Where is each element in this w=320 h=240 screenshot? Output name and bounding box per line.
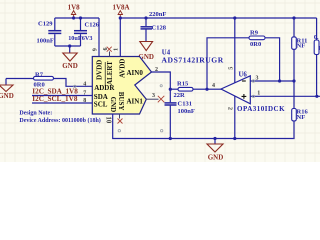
wire op-amp pin 1 (250, 95, 320, 97)
junction gnd rail (68, 44, 71, 47)
svg-text:ADS7142IRUGR: ADS7142IRUGR (162, 55, 224, 64)
resistor R16 (292, 81, 309, 139)
node marker on ADDR wire (74, 85, 76, 87)
junction R9 to pin3 net (278, 79, 281, 82)
junction gnd stub (213, 137, 216, 140)
svg-text:SCL: SCL (94, 100, 108, 108)
op-amp IC U4 ADS7142IRUGR body (92, 49, 223, 114)
node marker small circle 2 (161, 130, 163, 132)
svg-text:AIN0: AIN0 (127, 69, 144, 77)
junction R11 rail (292, 16, 295, 19)
svg-text:1V8A: 1V8A (112, 4, 129, 12)
svg-text:GND: GND (0, 92, 14, 100)
wire I2C_SCL_1V8 with net label (32, 95, 92, 103)
svg-text:0.: 0. (314, 34, 319, 41)
junction 1V8 (72, 16, 75, 19)
wire pin10 GND to bottom rail (113, 114, 294, 139)
capacitor C126 (68, 18, 99, 46)
svg-text:3: 3 (152, 93, 155, 99)
svg-text:AVDD: AVDD (119, 59, 127, 78)
svg-text:U6: U6 (239, 71, 248, 78)
svg-text:GND: GND (62, 62, 78, 70)
node marker small circle 1 (118, 130, 120, 132)
junction output node pin4 (205, 88, 208, 91)
pin 5 BUSY stub with no-connect X (118, 114, 123, 124)
wire I2C_SDA_1V8 with net label (32, 88, 92, 96)
svg-text:220nF: 220nF (149, 11, 166, 18)
ground C128 (138, 42, 154, 62)
svg-text:Design Note:: Design Note: (19, 110, 52, 116)
wire output node to op-amp (207, 88, 222, 90)
svg-text:4: 4 (212, 83, 215, 89)
svg-text:C128: C128 (152, 25, 167, 32)
svg-text:5: 5 (227, 67, 234, 70)
resistor R9 (207, 30, 280, 90)
svg-text:BUSY: BUSY (117, 92, 125, 111)
junction pin2 rail (233, 137, 236, 140)
svg-text:GND: GND (208, 154, 224, 162)
ground bottom rail (207, 139, 223, 162)
svg-text:10: 10 (104, 117, 111, 124)
svg-text:OPA310IDCK: OPA310IDCK (237, 105, 285, 113)
svg-text:C129: C129 (38, 21, 53, 28)
svg-text:NF: NF (297, 43, 306, 50)
ground caps (62, 46, 78, 70)
wire 1V8A rail top (120, 17, 316, 19)
wire DVDD feed (98, 18, 100, 57)
junction C128 (144, 16, 147, 19)
junction pin3 R11 node (292, 79, 295, 82)
junction 1V8A (119, 16, 122, 19)
resistor far right (clipped) (314, 18, 320, 96)
pin 6 ALERT label (105, 61, 114, 85)
svg-text:R15: R15 (177, 81, 189, 88)
ground R7 left (0, 79, 14, 101)
svg-text:C126: C126 (85, 22, 100, 29)
pin 6 ALERT stub with no-connect X (107, 47, 112, 57)
svg-text:22R: 22R (174, 92, 186, 99)
wire AVDD feed (119, 18, 121, 57)
junction C126 top (79, 16, 82, 19)
wire AIN0 to R15 node (152, 72, 171, 89)
svg-text:6V3: 6V3 (82, 35, 93, 42)
junction pin1 far right (315, 95, 318, 98)
wire op-amp pin 5 V+ (234, 18, 236, 83)
op-amp U6 OPA310IDCK (221, 71, 285, 113)
svg-text:0R0: 0R0 (250, 41, 261, 48)
svg-text:1: 1 (113, 48, 120, 51)
resistor R11 (292, 18, 308, 81)
svg-text:I2C_SCL_1V8: I2C_SCL_1V8 (32, 95, 78, 103)
svg-text:1: 1 (257, 91, 260, 97)
junction pin5 rail (233, 16, 236, 19)
pin end marker 3 (252, 80, 254, 82)
pin end marker 1 (252, 95, 254, 97)
pin 3 AIN1 stub with no-connect X (146, 96, 164, 103)
svg-text:AIN1: AIN1 (127, 98, 144, 106)
power port 1V8A (112, 4, 129, 19)
capacitor C128 (141, 11, 167, 42)
junction C131 bottom (169, 137, 172, 140)
svg-text:2: 2 (227, 107, 234, 110)
capacitor C131 (165, 89, 195, 138)
design note text (19, 110, 100, 124)
wire op-amp pin 3 (250, 80, 294, 82)
wire gnd rail below caps (55, 45, 81, 47)
svg-text:100nF: 100nF (178, 108, 195, 115)
svg-text:DVDD: DVDD (95, 60, 103, 80)
svg-text:Device Address: 0011000b (18h): Device Address: 0011000b (18h) (19, 117, 100, 124)
svg-text:GND: GND (109, 97, 117, 113)
resistor R15 (170, 81, 207, 99)
wire op-amp pin 2 V- (234, 96, 236, 139)
svg-text:ADDR: ADDR (94, 84, 115, 92)
svg-text:9: 9 (92, 48, 99, 51)
svg-text:ALERT: ALERT (106, 61, 114, 85)
capacitor C129 (37, 18, 62, 46)
junction R15 left node (169, 88, 172, 91)
svg-text:10uF: 10uF (68, 35, 82, 42)
node marker near IC notch (160, 85, 162, 87)
svg-text:3: 3 (256, 75, 259, 81)
svg-text:100nF: 100nF (37, 38, 54, 45)
resistor R7 (6, 71, 92, 88)
svg-text:C131: C131 (178, 101, 192, 108)
svg-text:NF: NF (297, 114, 306, 121)
power port 1V8 (68, 4, 81, 19)
wire 1V8 rail top-left (55, 17, 99, 19)
